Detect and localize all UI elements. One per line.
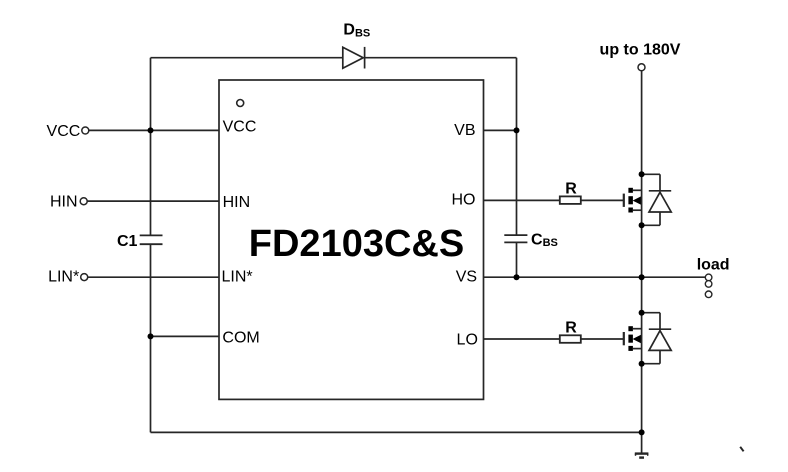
pin 1 marker circle bbox=[237, 100, 244, 107]
wire bootstrap vertical upper (to VB, down to CBS) bbox=[516, 58, 518, 235]
junction dot Q2 source bbox=[639, 361, 645, 367]
terminal load 1 bbox=[705, 274, 712, 281]
junction dot CBS-VS node bbox=[514, 274, 520, 280]
diode DBS bbox=[343, 47, 365, 69]
capacitor C1 plates bbox=[140, 235, 163, 244]
ground symbol bbox=[635, 454, 649, 458]
svg-text:LO: LO bbox=[457, 332, 478, 349]
wire VCC input row bbox=[89, 129, 219, 131]
svg-text:R: R bbox=[565, 320, 577, 337]
wire left rail lower (C1 down to bottom return) bbox=[150, 244, 152, 432]
wire left rail upper (VCC node down to C1) bbox=[150, 58, 152, 236]
terminal HIN input bbox=[80, 198, 87, 205]
wire LO to gate resistor bbox=[483, 338, 559, 340]
svg-text:DBS: DBS bbox=[343, 22, 370, 40]
terminal LIN* input bbox=[81, 274, 88, 281]
junction dot VB node bbox=[514, 127, 520, 133]
terminal load 3 bbox=[705, 291, 712, 298]
wire bootstrap vertical lower (CBS to VS) bbox=[516, 243, 518, 278]
wire HIN input row bbox=[87, 200, 218, 202]
junction dot Q1 drain bbox=[639, 171, 645, 177]
junction dot VS-switch node bbox=[639, 274, 645, 280]
wire bootstrap top right segment bbox=[365, 57, 517, 59]
wire ground stub bbox=[641, 432, 643, 452]
resistor R1 (HO gate resistor) body bbox=[560, 196, 581, 204]
svg-text:CBS: CBS bbox=[531, 231, 558, 249]
junction dot Q1 source bbox=[639, 222, 645, 228]
svg-text:VB: VB bbox=[454, 122, 475, 139]
wire Q2 source to ground node bbox=[641, 365, 643, 433]
terminal VCC input bbox=[82, 127, 89, 134]
svg-text:HIN: HIN bbox=[50, 193, 78, 210]
transistor Q1 (high-side MOSFET) bbox=[624, 174, 642, 225]
svg-text:R: R bbox=[565, 181, 577, 198]
junction dot COM node bbox=[148, 333, 154, 339]
junction dot VCC node bbox=[148, 127, 154, 133]
wire VS node to Q2 drain bbox=[641, 277, 643, 313]
svg-text:HIN: HIN bbox=[223, 194, 251, 211]
wire resistor R1 to Q1 gate bbox=[581, 199, 624, 201]
svg-text:FD2103C&S: FD2103C&S bbox=[249, 223, 464, 265]
IC U1 FD2103C&S body bbox=[219, 80, 484, 399]
junction dot Q2 drain bbox=[639, 310, 645, 316]
svg-text:VCC: VCC bbox=[223, 119, 257, 136]
wire VS row to load bbox=[483, 276, 705, 278]
svg-text:COM: COM bbox=[222, 330, 259, 347]
diode D1 (Q1 body diode) bbox=[642, 174, 672, 225]
svg-text:up to 180V: up to 180V bbox=[600, 41, 681, 58]
junction dot ground node bbox=[639, 429, 645, 435]
svg-text:LIN*: LIN* bbox=[222, 269, 253, 286]
capacitor CBS plates bbox=[504, 235, 527, 242]
wire resistor R2 to Q2 gate bbox=[581, 338, 624, 340]
transistor Q2 (low-side MOSFET) bbox=[624, 313, 642, 364]
resistor R2 (LO gate resistor) body bbox=[560, 335, 581, 343]
wire Q1 source to VS node bbox=[641, 225, 643, 277]
stray tick mark bottom right bbox=[740, 447, 743, 452]
wire 180V supply down to Q1 drain bbox=[641, 71, 643, 174]
svg-text:HO: HO bbox=[452, 192, 476, 209]
wire HO to gate resistor bbox=[483, 199, 559, 201]
svg-text:load: load bbox=[697, 257, 730, 274]
wire bootstrap top left segment bbox=[151, 57, 343, 59]
wire COM stub bbox=[151, 335, 219, 337]
wire bottom return bbox=[151, 431, 642, 433]
svg-text:LIN*: LIN* bbox=[48, 269, 79, 286]
wire VB stub bbox=[483, 129, 516, 131]
diode D2 (Q2 body diode) bbox=[642, 313, 672, 364]
svg-text:VCC: VCC bbox=[47, 123, 81, 140]
terminal load 2 bbox=[705, 281, 712, 288]
terminal 180V supply bbox=[638, 64, 645, 71]
wire LIN* input row bbox=[88, 276, 219, 278]
svg-text:C1: C1 bbox=[117, 233, 138, 250]
svg-text:VS: VS bbox=[456, 269, 477, 286]
